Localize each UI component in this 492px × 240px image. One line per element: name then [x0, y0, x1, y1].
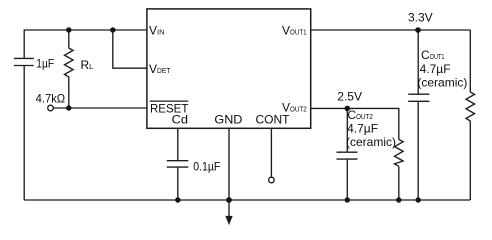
- svg-text:VOUT2: VOUT2: [282, 100, 307, 114]
- node junction dot 3.3V: [415, 27, 421, 33]
- capacitor Cd 0.1uF plates: [167, 160, 189, 162]
- wire COUT2 bottom: [346, 160, 348, 200]
- svg-text:3.3V: 3.3V: [408, 11, 433, 25]
- wire Cd pin down: [177, 128, 179, 160]
- resistor RL zigzag: [65, 30, 74, 108]
- terminal circle CONT input: [269, 177, 275, 183]
- svg-text:4.7µF: 4.7µF: [420, 62, 451, 76]
- svg-text:VIN: VIN: [149, 23, 165, 37]
- ground arrow below GND pin: [225, 216, 232, 225]
- node junction dot 2.5V: [345, 106, 351, 112]
- wire VOUT2 to right and down: [311, 108, 399, 139]
- wire COUT1 bottom: [417, 102, 419, 200]
- capacitor COUT1 plates: [408, 93, 429, 95]
- svg-text:(ceramic): (ceramic): [346, 135, 396, 149]
- node junction dot COUT2 rail: [345, 197, 350, 202]
- node junction dot VDET branch: [110, 27, 115, 32]
- wire Cd cap to rail: [177, 168, 179, 200]
- resistor R2 load on 2.5V zigzag: [395, 139, 404, 166]
- svg-text:(ceramic): (ceramic): [417, 75, 467, 89]
- node junction dot RESET/RL: [66, 105, 71, 110]
- op-amp U1 regulator IC body: [147, 9, 311, 128]
- wire VIN top rail: [24, 30, 147, 58]
- svg-text:CONT: CONT: [256, 113, 291, 127]
- svg-text:VDET: VDET: [149, 62, 171, 76]
- capacitor COUT2 plates: [337, 151, 358, 153]
- wire VDET branch: [113, 30, 147, 68]
- wire right branch down to load resistor: [469, 30, 471, 92]
- wire RESET: [53, 107, 146, 109]
- svg-text:0.1µF: 0.1µF: [193, 160, 220, 174]
- node junction dot COUT1 rail: [416, 197, 421, 202]
- svg-text:4.7kΩ: 4.7kΩ: [36, 91, 66, 105]
- svg-text:COUT2: COUT2: [347, 108, 372, 122]
- wire resistor R2 to rail: [398, 166, 400, 200]
- node junction dot Cd rail: [175, 197, 180, 202]
- node junction dot GND rail: [226, 197, 232, 203]
- capacitor C1 1uF plates: [14, 57, 34, 59]
- resistor load on 3.3V zigzag: [466, 92, 475, 121]
- wire ground rail: [24, 199, 470, 201]
- svg-text:RL: RL: [81, 58, 94, 72]
- wire COUT2 top: [346, 108, 348, 151]
- svg-text:VOUT1: VOUT1: [282, 23, 307, 37]
- svg-text:Cd: Cd: [172, 113, 188, 127]
- wire C1 bottom to ground rail: [23, 66, 25, 200]
- wire COUT1 top: [417, 30, 419, 94]
- svg-text:4.7µF: 4.7µF: [347, 122, 378, 136]
- wire CONT pin down: [270, 128, 272, 177]
- wire GND pin down to arrow: [228, 128, 230, 216]
- pin label RESET overline: [150, 100, 188, 102]
- wire load resistor to rail: [469, 121, 471, 200]
- node junction dot R2 rail: [396, 197, 401, 202]
- svg-text:COUT1: COUT1: [421, 48, 444, 62]
- wire VOUT1 to right: [311, 29, 471, 31]
- node junction dot RL top: [66, 27, 71, 32]
- svg-text:1µF: 1µF: [36, 56, 54, 70]
- svg-text:2.5V: 2.5V: [337, 90, 362, 104]
- svg-text:GND: GND: [214, 113, 242, 127]
- terminal circle RESET input: [48, 105, 54, 111]
